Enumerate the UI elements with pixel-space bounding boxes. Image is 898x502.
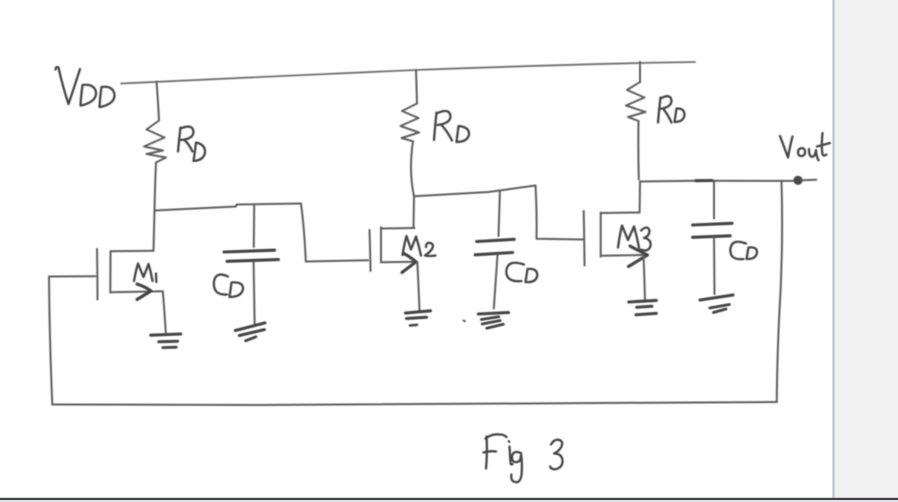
label CD (C2) xyxy=(506,263,537,282)
transistor M3 xyxy=(584,182,648,301)
ground (M3 source) xyxy=(629,300,657,314)
wire: stub past Vout dot xyxy=(802,179,816,182)
resistor R1 (RD) xyxy=(144,82,166,211)
label CD (C3) xyxy=(730,242,757,259)
ground (M1 source) xyxy=(151,334,181,348)
label RD (R3) xyxy=(658,96,685,122)
label CD (C1) xyxy=(214,275,243,297)
wire: feedback right vertical (Vout down) xyxy=(777,181,782,402)
wire: N2 down and to M3 gate xyxy=(536,186,584,240)
resistor R2 (RD) xyxy=(401,70,420,196)
label M2 xyxy=(403,236,436,256)
ground (C1) xyxy=(235,323,265,341)
stray mark near C2 ground xyxy=(463,320,465,323)
capacitor C2 (CD) xyxy=(475,191,514,309)
resistor R3 (RD) xyxy=(626,62,646,180)
label M3 xyxy=(618,226,651,251)
wire: node N1 (M1 drain to C1 and stage2) xyxy=(155,204,302,211)
wire: N1 down and to M2 gate xyxy=(301,204,368,262)
label RD (R1) xyxy=(178,127,205,161)
wire: N3 thick overdrawn segment xyxy=(696,179,712,182)
label M1 xyxy=(134,264,156,283)
transistor M2 xyxy=(370,196,420,310)
ground (C3) xyxy=(700,295,733,313)
label RD (R2) xyxy=(434,111,469,142)
ground (M2 source) xyxy=(406,311,431,326)
wire: VDD supply rail xyxy=(121,62,695,84)
wire: feedback bottom run xyxy=(52,402,777,405)
label Fig 3 xyxy=(484,434,563,482)
capacitor C1 (CD) xyxy=(224,205,278,324)
ground (C2) xyxy=(478,313,508,329)
node Vout terminal dot xyxy=(793,176,802,185)
label VDD xyxy=(56,67,115,107)
wire: node N2 (M2 drain to C2 and stage3) xyxy=(414,186,536,197)
wire: node N3 (M3 drain to C3 and Vout) xyxy=(640,180,793,183)
label Vout xyxy=(780,133,830,160)
capacitor C3 (CD) xyxy=(693,182,732,295)
wire: feedback left vertical up to M1 gate xyxy=(49,276,96,404)
transistor M1 xyxy=(97,211,166,333)
